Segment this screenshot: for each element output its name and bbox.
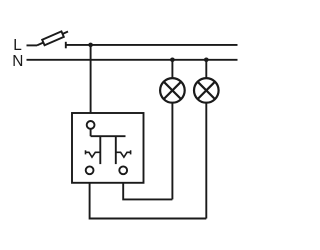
wire feed to switch [90,45,92,113]
wire lamp E1 down [171,103,173,200]
svg-text:L: L [13,37,22,54]
fuse-switch F1 blade [37,32,68,46]
wire N to lamp E1 [171,60,173,78]
svg-text:N: N [12,53,23,70]
switch S1 stem [90,129,92,136]
switch S1 left pole [99,136,101,164]
wire N to lamp E2 [205,60,207,78]
node L feed junction [88,43,93,48]
wire switch output 1 to lamp E2 [90,183,207,219]
wire switch output 2 to lamp E1 [123,183,172,200]
switch S1 right pole [115,136,117,164]
switch S1 output terminal 2 [119,166,127,174]
wire N [27,59,238,61]
switch S1 input terminal [87,121,95,129]
wire L stub [27,44,38,46]
fuse-switch F1 fixed contact [65,42,67,49]
switch S1 output terminal 1 [86,166,94,174]
switch S1 left contact [86,150,101,157]
wire L main [66,44,238,46]
fuse-switch F1 body [42,31,64,45]
node N lamp E1 junction [170,58,175,63]
node N lamp E2 junction [204,58,209,63]
lamp E2 [194,78,219,103]
lamp E1 [160,78,185,103]
switch S1 right contact [116,150,131,157]
switch box S1 [72,113,144,183]
wire lamp E2 down [205,103,207,219]
switch S1 bar [91,135,126,137]
